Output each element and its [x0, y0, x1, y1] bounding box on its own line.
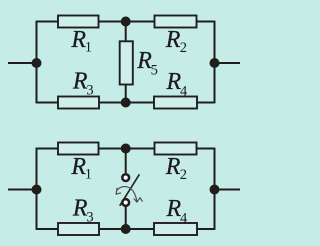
wire: circuit 2 top (node D to node E via R1, R2) — [37, 148, 215, 150]
node B: circuit 1 left — [32, 58, 42, 68]
wire: circuit 2 right vertical — [214, 148, 216, 230]
wire: circuit 1 left vertical — [36, 21, 38, 104]
node D: circuit 2 left — [32, 185, 42, 195]
toggle arrow left head — [116, 188, 121, 194]
toggle arrow arc — [117, 187, 137, 202]
node C: circuit 1 right — [210, 58, 220, 68]
resistor R4 (circuit 2) — [154, 223, 197, 235]
wire: circuit 1 right vertical — [214, 21, 216, 104]
wire: circuit 2 from switch lower contact to bottom junction — [125, 207, 127, 229]
switch lower contact — [122, 199, 129, 206]
label R1 (circuit 2) — [70, 154, 92, 183]
node: circuit 1 top junction — [121, 17, 131, 27]
resistor R2 — [155, 16, 197, 28]
resistor R1 (circuit 2) — [58, 143, 99, 155]
svg-text:4: 4 — [180, 210, 188, 226]
resistor R5 — [120, 41, 133, 84]
resistor R1 — [58, 16, 99, 28]
label R4 — [166, 69, 189, 100]
svg-text:R: R — [165, 27, 181, 53]
svg-text:3: 3 — [86, 209, 93, 225]
node: circuit 1 bottom junction — [121, 98, 131, 108]
label R5 — [136, 48, 158, 78]
resistor R3 — [58, 97, 99, 109]
svg-text:1: 1 — [85, 166, 92, 182]
svg-text:5: 5 — [151, 62, 158, 78]
wire: circuit 1 middle branch through R5 — [125, 22, 127, 103]
wire: circuit 2 right terminal lead — [215, 189, 241, 191]
label R4 (circuit 2) — [166, 196, 189, 227]
svg-text:3: 3 — [86, 82, 93, 98]
svg-text:1: 1 — [85, 39, 92, 55]
wire: circuit 2 from top junction to switch upper contact — [125, 149, 127, 174]
svg-text:2: 2 — [180, 40, 187, 56]
wire: circuit 2 left vertical — [36, 148, 38, 230]
label R1 — [70, 27, 92, 56]
wire: circuit 2 left terminal lead — [8, 189, 37, 191]
label R3 — [72, 68, 94, 98]
svg-text:2: 2 — [180, 167, 187, 183]
switch lever (open blade) — [120, 174, 140, 206]
resistor R4 — [154, 97, 197, 109]
label R2 (circuit 2) — [165, 154, 187, 183]
toggle arrow right head — [134, 198, 143, 202]
wire: circuit 1 right terminal lead — [215, 62, 241, 64]
label R3 (circuit 2) — [72, 195, 94, 225]
wire: circuit 1 bottom (node B to node C via R3, R4) — [37, 102, 215, 104]
node: circuit 2 top junction — [121, 144, 131, 154]
resistor R2 (circuit 2) — [155, 143, 197, 155]
node E: circuit 2 right — [210, 185, 220, 195]
node: circuit 2 bottom junction — [121, 224, 131, 234]
resistor R3 (circuit 2) — [58, 223, 99, 235]
label R2 — [165, 27, 187, 56]
svg-text:R: R — [165, 154, 181, 180]
switch upper contact — [122, 174, 129, 181]
wire: circuit 1 left terminal lead — [8, 62, 37, 64]
wire: circuit 1 top (node B to node C via R1, R2) — [37, 21, 215, 23]
svg-text:4: 4 — [180, 83, 188, 99]
wire: circuit 2 bottom (node D to node E via R3, R4) — [37, 228, 215, 230]
